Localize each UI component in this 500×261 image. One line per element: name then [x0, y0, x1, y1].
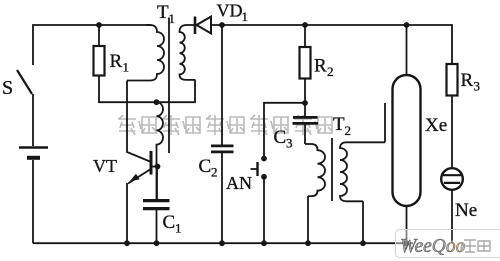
svg-text:1: 1 [242, 9, 249, 24]
transformer T1 feedback winding [157, 102, 164, 199]
wire node to button AN [264, 103, 305, 156]
resistor R2 [300, 47, 311, 79]
svg-text:C: C [199, 156, 212, 177]
battery plate long [19, 146, 48, 148]
node VT base [155, 164, 161, 170]
battery plate short [27, 156, 40, 160]
wire top rail right [211, 25, 452, 64]
svg-text:R: R [461, 70, 474, 91]
transformer T1 primary winding [127, 25, 164, 81]
svg-text:Ne: Ne [455, 200, 477, 221]
svg-text:2: 2 [327, 64, 334, 79]
node feedback winding top [154, 99, 160, 105]
capacitor C1 [143, 201, 170, 209]
transformer T1 core [168, 18, 170, 154]
svg-text:2: 2 [211, 165, 218, 180]
node Xe rail [404, 240, 410, 246]
svg-text:T: T [157, 2, 169, 23]
wire T2 primary to bottom rail [307, 196, 309, 243]
wire switch to battery [32, 94, 34, 146]
svg-text:T: T [333, 114, 345, 135]
node AN rail [261, 240, 267, 246]
svg-text:WeeQoo: WeeQoo [400, 236, 466, 257]
button AN actuator stub [251, 168, 258, 170]
neon lamp Ne [441, 168, 463, 190]
wire node to C3 [304, 103, 306, 116]
wire VD1 node to C2 [221, 25, 223, 145]
svg-text:R: R [314, 56, 327, 77]
wire R2 top [304, 25, 306, 47]
node C2 rail [219, 240, 225, 246]
wire base node to C1 [156, 167, 158, 200]
transistor VT collector wire [127, 81, 150, 162]
svg-text:VD: VD [217, 1, 243, 21]
wire Ne lamp lower stub [451, 230, 453, 241]
svg-text:2: 2 [345, 123, 352, 138]
button AN bridge bar [256, 162, 258, 176]
capacitor C3 [293, 117, 319, 123]
watermark WeeQoo box [396, 230, 500, 258]
wire Ne lamp to bottom corner [451, 190, 453, 243]
svg-text:3: 3 [474, 79, 481, 94]
node Xe top [404, 22, 410, 28]
wire R3 to Ne lamp [451, 96, 453, 169]
node emitter rail [124, 240, 130, 246]
node VD1 output [219, 22, 225, 28]
wire AN to bottom rail [263, 177, 265, 243]
resistor R1 [94, 46, 105, 76]
transistor VT base bar [150, 151, 153, 175]
svg-text:AN: AN [226, 173, 252, 193]
svg-text:3: 3 [286, 136, 293, 151]
wire Xe tube to bottom rail [406, 206, 408, 243]
node R2 top [302, 22, 308, 28]
switch S [17, 70, 32, 94]
wire R2 bottom [304, 79, 306, 104]
wire C3 to T2 primary [304, 123, 306, 144]
transformer T2 core [331, 138, 333, 201]
transistor VT base stub [153, 166, 158, 168]
wire T2 secondary to bottom rail [362, 201, 364, 243]
svg-text:1: 1 [169, 11, 176, 26]
diode VD1 triangle [197, 17, 212, 34]
wire R1 bottom to base net [99, 76, 195, 103]
transformer T2 secondary winding [340, 142, 385, 201]
wire bottom rail [33, 242, 413, 244]
transistor VT emitter arrow [130, 174, 140, 182]
node T2 primary rail [305, 240, 311, 246]
transformer T1 secondary winding [180, 25, 196, 80]
node C1 rail [154, 240, 160, 246]
wire C1 to bottom rail [156, 209, 158, 244]
xenon tube Xe [393, 75, 421, 206]
wire C2 to bottom rail [221, 152, 223, 243]
svg-text:1: 1 [175, 221, 182, 236]
capacitor C2 [211, 146, 234, 152]
node T2 secondary rail [360, 240, 366, 246]
watermark 维库 [461, 240, 490, 252]
transformer T2 primary winding [305, 144, 325, 196]
neon lamp electrodes [443, 175, 461, 183]
svg-text:R: R [110, 51, 123, 72]
svg-text:VT: VT [93, 156, 117, 176]
svg-text:C: C [274, 127, 287, 148]
svg-text:S: S [2, 77, 13, 99]
transistor VT emitter [127, 170, 150, 244]
svg-text:1: 1 [123, 60, 130, 75]
node R2 bottom [302, 100, 308, 106]
svg-text:Xe: Xe [425, 115, 447, 136]
wire R1 top [98, 25, 100, 46]
wire top rail to Xe tube [406, 25, 408, 75]
trigger electrode wire [384, 103, 386, 142]
node AN upper contact [261, 156, 267, 162]
resistor R3 [447, 64, 458, 96]
diode VD1 cathode bar [194, 17, 197, 35]
node R1 top [96, 22, 102, 28]
watermark 杭州将睿科技有限公司 [118, 115, 332, 135]
svg-text:C: C [163, 212, 176, 233]
node AN lower contact [261, 174, 267, 180]
wire battery to bottom rail [32, 160, 34, 243]
wire top rail left [33, 25, 151, 65]
